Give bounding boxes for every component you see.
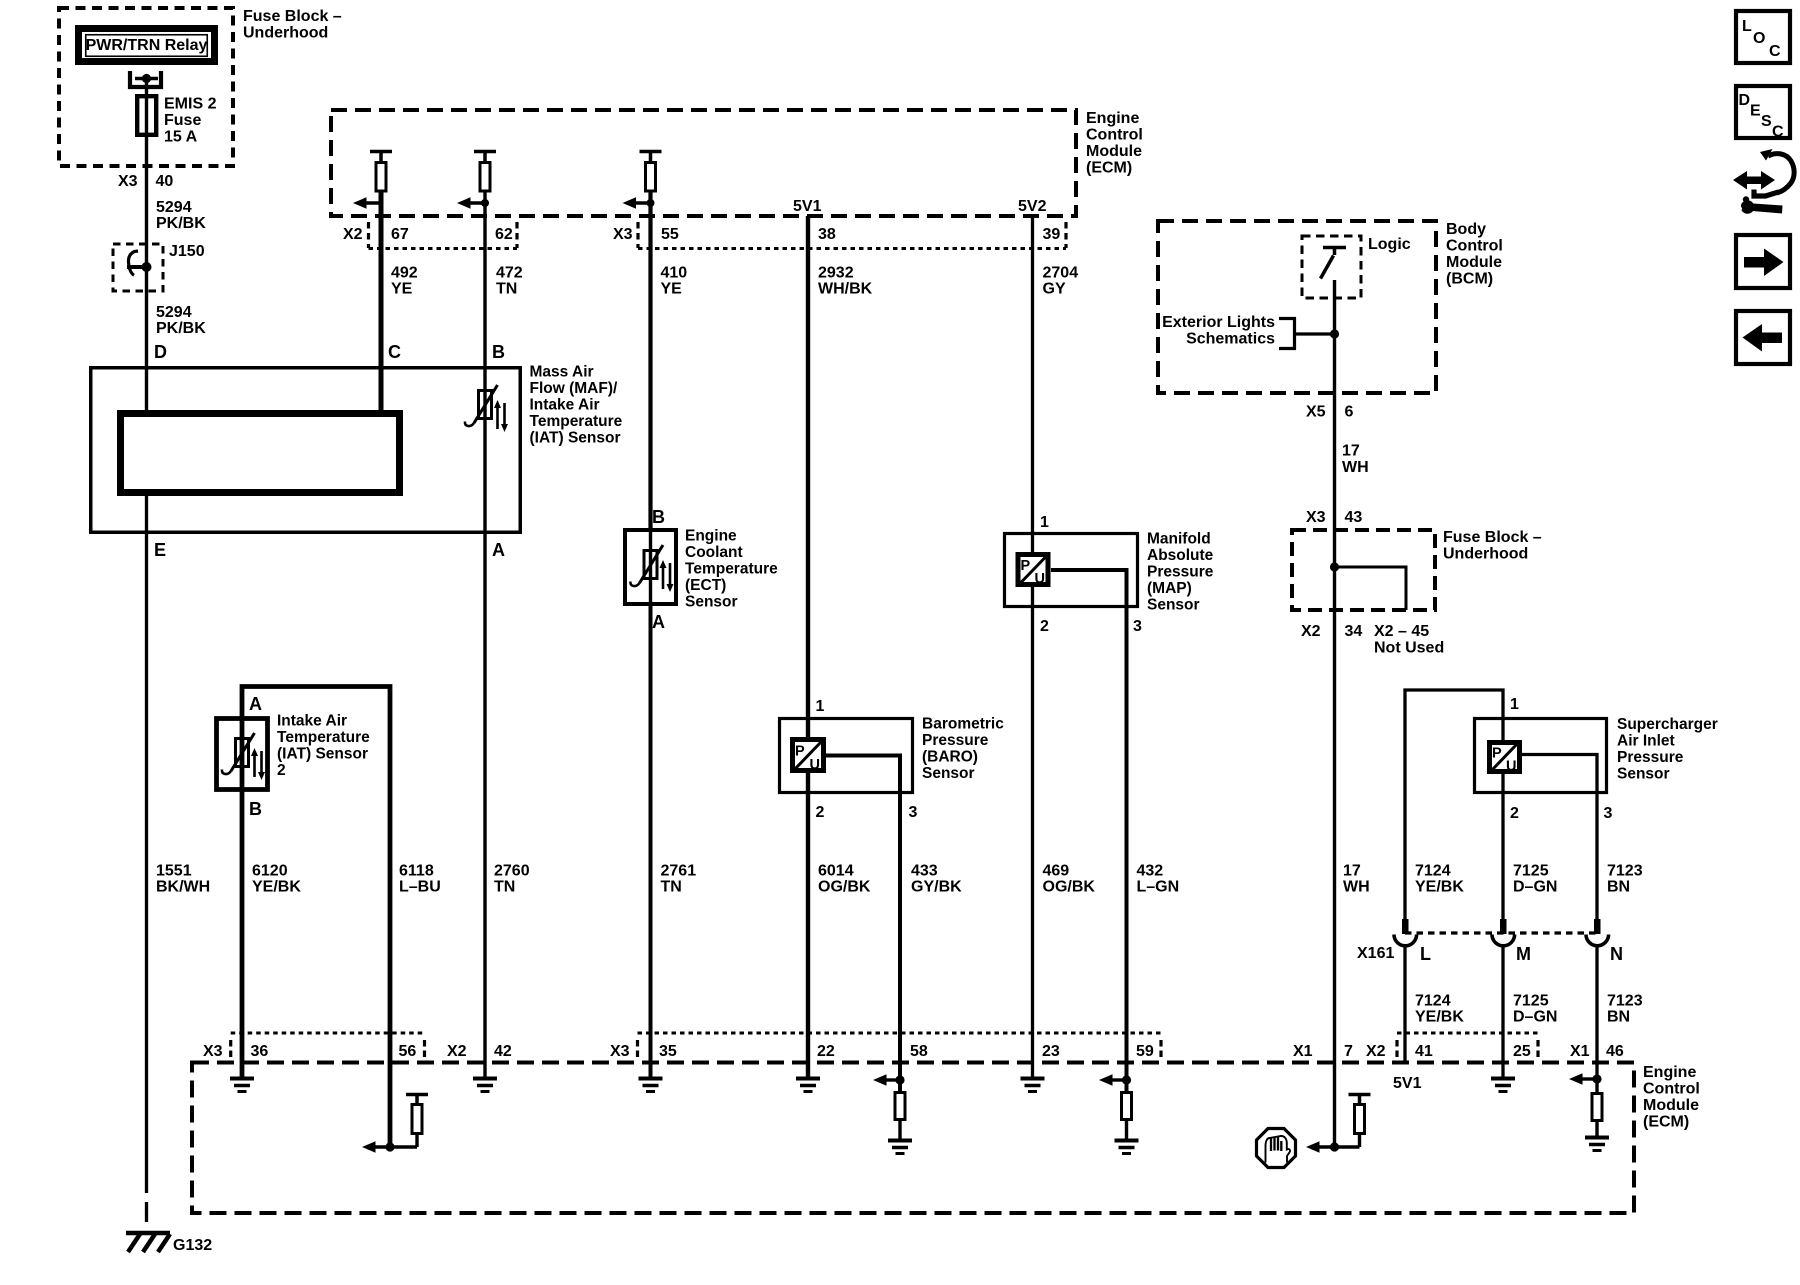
connector X161 pin N <box>1586 919 1609 1079</box>
svg-text:D–GN: D–GN <box>1513 1009 1557 1026</box>
svg-text:EMIS 2: EMIS 2 <box>164 96 217 113</box>
ground at pin 22 <box>806 1063 810 1079</box>
svg-text:L–BU: L–BU <box>399 879 441 896</box>
logic dashed box <box>1302 236 1361 298</box>
svg-text:P: P <box>795 744 805 760</box>
svg-text:7125: 7125 <box>1513 993 1549 1010</box>
svg-text:P: P <box>1021 558 1031 574</box>
svg-text:2761: 2761 <box>661 863 697 880</box>
svg-text:Body: Body <box>1446 221 1486 238</box>
svg-text:1551: 1551 <box>156 863 192 880</box>
svg-text:23: 23 <box>1042 1043 1060 1060</box>
svg-text:(ECT): (ECT) <box>685 577 726 594</box>
svg-text:Module: Module <box>1643 1097 1699 1114</box>
svg-text:Supercharger: Supercharger <box>1617 716 1718 733</box>
svg-text:X1: X1 <box>1570 1043 1590 1060</box>
svg-text:GY: GY <box>1043 281 1066 298</box>
svg-text:BN: BN <box>1607 1009 1630 1026</box>
svg-text:BK/WH: BK/WH <box>156 879 210 896</box>
svg-text:WH: WH <box>1343 879 1370 896</box>
svg-text:X1: X1 <box>1293 1043 1313 1060</box>
svg-text:Pressure: Pressure <box>1617 749 1684 766</box>
SECTION: top ECM box <box>331 110 1143 1063</box>
svg-text:L–GN: L–GN <box>1137 879 1180 896</box>
fuse block underhood box <box>59 8 233 166</box>
svg-text:6120: 6120 <box>252 863 288 880</box>
svg-text:25: 25 <box>1513 1043 1531 1060</box>
svg-text:15 A: 15 A <box>164 129 198 146</box>
SECTION: supercharger <box>1357 690 1718 1079</box>
svg-text:5V2: 5V2 <box>1018 198 1047 215</box>
supercharger air inlet pressure sensor box <box>1475 719 1607 793</box>
svg-text:2932: 2932 <box>818 265 854 282</box>
svg-text:YE/BK: YE/BK <box>252 879 301 896</box>
svg-text:(ECM): (ECM) <box>1086 160 1132 177</box>
svg-text:35: 35 <box>659 1043 677 1060</box>
svg-text:WH: WH <box>1342 459 1369 476</box>
MAF inner element box <box>121 414 400 493</box>
svg-text:(IAT) Sensor: (IAT) Sensor <box>530 430 621 447</box>
svg-text:Engine: Engine <box>1086 110 1139 127</box>
svg-text:22: 22 <box>817 1043 835 1060</box>
connector X161 pin L <box>1394 919 1417 1063</box>
stop hand icon <box>1257 1129 1296 1168</box>
svg-text:62: 62 <box>495 226 513 243</box>
svg-text:WH/BK: WH/BK <box>818 281 873 298</box>
wire 472 TN (pin 62 to MAF B then 2760 TN to pin 42) <box>483 191 486 1063</box>
wire 17 WH (BCM X5-6 down to ECM X1-7) <box>1333 280 1336 1147</box>
svg-text:3: 3 <box>909 804 918 821</box>
connector X2 dotted box <box>369 222 518 248</box>
svg-text:X3: X3 <box>203 1043 223 1060</box>
svg-text:D: D <box>154 342 167 362</box>
svg-text:Schematics: Schematics <box>1186 331 1275 348</box>
svg-text:Absolute: Absolute <box>1147 547 1214 564</box>
svg-text:M: M <box>1516 944 1531 964</box>
svg-text:X3: X3 <box>118 173 138 190</box>
ground at pin 42 <box>483 1063 486 1079</box>
svg-text:1: 1 <box>816 698 825 715</box>
svg-text:TN: TN <box>661 879 682 896</box>
svg-text:6: 6 <box>1345 404 1354 421</box>
pin 56 internal: arrow + pull-up resistor <box>362 1095 428 1153</box>
ECM bottom dashed box <box>192 1063 1634 1214</box>
svg-text:Intake Air: Intake Air <box>530 397 600 414</box>
wire E (1551 BK/WH) <box>145 496 148 1173</box>
svg-text:C: C <box>388 342 401 362</box>
svg-text:Control: Control <box>1086 127 1143 144</box>
svg-text:Control: Control <box>1446 238 1503 255</box>
svg-text:58: 58 <box>910 1043 928 1060</box>
svg-text:YE: YE <box>661 281 683 298</box>
pin 46 internal: arrow + resistor + ground <box>1569 1073 1609 1150</box>
svg-text:7124: 7124 <box>1415 863 1451 880</box>
ECM top dashed box <box>331 110 1076 216</box>
svg-text:U: U <box>1035 571 1045 587</box>
svg-text:36: 36 <box>251 1043 269 1060</box>
ECT sensor box <box>625 530 676 604</box>
svg-text:7: 7 <box>1344 1043 1353 1060</box>
MAP sensor box <box>1005 534 1138 607</box>
svg-text:56: 56 <box>399 1043 417 1060</box>
relay K (PWR/TRN Relay) <box>79 29 215 62</box>
svg-text:E: E <box>154 540 166 560</box>
IAT sensor box <box>217 719 268 790</box>
svg-text:Barometric: Barometric <box>922 716 1004 733</box>
pin 58 internal: arrow + resistor + ground <box>873 1063 912 1154</box>
svg-text:S: S <box>1761 113 1772 130</box>
connector X2 dotted box (41,25) <box>1397 1040 1538 1058</box>
splice J150 <box>113 244 163 291</box>
svg-text:Control: Control <box>1643 1081 1700 1098</box>
ECM driver pin 67 <box>353 152 392 209</box>
connector X3 dotted box (36,56) <box>231 1040 425 1058</box>
junction <box>142 74 151 83</box>
svg-text:GY/BK: GY/BK <box>911 879 962 896</box>
svg-text:N: N <box>1610 944 1623 964</box>
P/U transducer symbol <box>793 740 824 771</box>
ground G132 <box>126 1231 170 1236</box>
svg-text:L: L <box>1420 944 1431 964</box>
BCM dashed box <box>1158 221 1436 393</box>
svg-text:Temperature: Temperature <box>685 561 778 578</box>
svg-text:59: 59 <box>1136 1043 1154 1060</box>
thermistor (IAT element inside MAF box) <box>479 391 492 419</box>
wire 7125 D-GN (pin 2 to X161 M) <box>1501 772 1504 919</box>
svg-text:(BCM): (BCM) <box>1446 271 1493 288</box>
svg-text:Sensor: Sensor <box>1617 766 1670 783</box>
svg-text:Sensor: Sensor <box>1147 597 1200 614</box>
svg-text:U: U <box>810 757 820 773</box>
svg-text:Module: Module <box>1446 254 1502 271</box>
fuse block underhood box 2 <box>1292 530 1435 610</box>
svg-text:C: C <box>1769 43 1781 60</box>
pin 59 internal: arrow + resistor + ground <box>1099 1063 1139 1154</box>
svg-text:G132: G132 <box>173 1237 212 1254</box>
svg-text:433: 433 <box>911 863 938 880</box>
wire <box>145 79 148 97</box>
svg-text:Temperature: Temperature <box>277 729 370 746</box>
svg-text:(IAT) Sensor: (IAT) Sensor <box>277 746 368 763</box>
svg-text:E: E <box>1750 103 1761 120</box>
svg-text:C: C <box>1772 124 1784 141</box>
svg-text:X5: X5 <box>1306 404 1326 421</box>
svg-text:PK/BK: PK/BK <box>156 320 206 337</box>
svg-text:OG/BK: OG/BK <box>1043 879 1096 896</box>
svg-text:1: 1 <box>1510 696 1519 713</box>
svg-text:7124: 7124 <box>1415 993 1451 1010</box>
ground at pin 25 <box>1501 1063 1504 1079</box>
svg-text:B: B <box>492 342 505 362</box>
svg-text:Flow (MAF)/: Flow (MAF)/ <box>530 380 619 397</box>
svg-text:17: 17 <box>1342 443 1360 460</box>
svg-text:7123: 7123 <box>1607 863 1643 880</box>
pin1 wire inside box <box>806 717 810 740</box>
svg-text:Sensor: Sensor <box>922 765 975 782</box>
svg-text:B: B <box>652 507 665 527</box>
svg-text:(MAP): (MAP) <box>1147 580 1192 597</box>
svg-text:(BARO): (BARO) <box>922 749 978 766</box>
svg-text:X2: X2 <box>447 1043 467 1060</box>
svg-text:43: 43 <box>1345 509 1363 526</box>
svg-text:Fuse Block –: Fuse Block – <box>243 8 342 25</box>
wire 6120 YE/BK (IAT B to ECM 36) <box>240 792 245 1063</box>
pin1 wire inside box <box>1031 532 1034 556</box>
wire 7124 YE/BK (pin 1 loop over to X161 L) <box>1405 690 1503 919</box>
svg-text:Exterior Lights: Exterior Lights <box>1162 314 1275 331</box>
svg-text:Manifold: Manifold <box>1147 531 1211 548</box>
wire from fuse to MAF pin D <box>145 96 148 410</box>
wire 2704 GY (pin 39 5V2 to MAP 1) <box>1031 216 1034 532</box>
svg-text:3: 3 <box>1133 618 1142 635</box>
svg-text:6014: 6014 <box>818 863 854 880</box>
svg-text:39: 39 <box>1043 226 1061 243</box>
svg-text:O: O <box>1753 30 1765 47</box>
svg-text:Underhood: Underhood <box>243 25 328 42</box>
P/U transducer symbol <box>1018 555 1048 585</box>
svg-text:TN: TN <box>494 879 515 896</box>
ECM driver pin 62 <box>457 152 496 209</box>
svg-text:Pressure: Pressure <box>922 732 989 749</box>
svg-text:2: 2 <box>1040 618 1049 635</box>
splice jog inside fuse block <box>1330 562 1339 571</box>
connector X161 pin M <box>1492 919 1515 1063</box>
svg-text:410: 410 <box>661 265 688 282</box>
svg-text:X2 – 45: X2 – 45 <box>1374 623 1429 640</box>
svg-text:38: 38 <box>818 226 836 243</box>
ground at pin 35 <box>649 1063 653 1079</box>
svg-text:Sensor: Sensor <box>685 594 738 611</box>
svg-text:X3: X3 <box>610 1043 630 1060</box>
svg-text:(ECM): (ECM) <box>1643 1114 1689 1131</box>
back arrow box <box>1736 311 1790 364</box>
MAF/IAT sensor outer box <box>91 368 521 533</box>
svg-text:YE/BK: YE/BK <box>1415 1009 1464 1026</box>
svg-text:X2: X2 <box>343 226 363 243</box>
svg-text:YE/BK: YE/BK <box>1415 879 1464 896</box>
svg-text:P: P <box>1492 746 1502 762</box>
svg-text:469: 469 <box>1043 863 1070 880</box>
service info icon (double arrow + wrench) <box>1733 149 1794 214</box>
svg-text:2: 2 <box>277 762 286 779</box>
svg-text:U: U <box>1506 759 1516 775</box>
svg-text:432: 432 <box>1137 863 1164 880</box>
svg-text:41: 41 <box>1415 1043 1433 1060</box>
SECTION: wire labels <box>156 265 1643 1026</box>
logic switch symbol <box>1323 248 1346 256</box>
svg-text:Coolant: Coolant <box>685 544 743 561</box>
svg-text:34: 34 <box>1345 623 1363 640</box>
svg-text:Temperature: Temperature <box>530 413 623 430</box>
SECTION: MAP sensor <box>1005 514 1214 1063</box>
svg-text:TN: TN <box>496 281 517 298</box>
wire 6118 L-BU loop (IAT A up over to ECM 56) <box>242 687 390 1148</box>
svg-text:2760: 2760 <box>494 863 530 880</box>
output wire to pin 3 <box>826 756 900 1063</box>
svg-text:40: 40 <box>156 173 174 190</box>
pin 7 internal: arrow + pull-up resistor <box>1306 1095 1371 1153</box>
thermistor element <box>649 528 652 606</box>
svg-text:X161: X161 <box>1357 945 1394 962</box>
svg-text:492: 492 <box>391 265 418 282</box>
svg-text:Air Inlet: Air Inlet <box>1617 733 1675 750</box>
svg-text:PK/BK: PK/BK <box>156 215 206 232</box>
BARO sensor box <box>780 719 913 793</box>
svg-text:2: 2 <box>816 804 825 821</box>
SECTION: top-left fuse block <box>59 8 342 410</box>
fuse F EMIS 2 15 A <box>137 96 156 135</box>
svg-text:46: 46 <box>1606 1043 1624 1060</box>
wire 410 YE (pin 55 to ECT B) <box>648 191 652 528</box>
svg-text:Fuse: Fuse <box>164 112 201 129</box>
svg-text:YE: YE <box>391 281 413 298</box>
svg-text:OG/BK: OG/BK <box>818 879 871 896</box>
svg-text:A: A <box>492 540 505 560</box>
connector X161 dashed link <box>1405 931 1597 934</box>
wire 6014 OG/BK (BARO 2 to ECM 22) <box>806 771 810 1063</box>
LOC nav box <box>1736 11 1790 63</box>
svg-text:5294: 5294 <box>156 199 192 216</box>
svg-text:5V1: 5V1 <box>793 198 822 215</box>
svg-text:55: 55 <box>661 226 679 243</box>
svg-text:Not Used: Not Used <box>1374 640 1444 657</box>
SECTION: right side icons <box>1733 11 1794 364</box>
svg-text:A: A <box>249 694 262 714</box>
ground at pin 23 <box>1031 1063 1034 1079</box>
svg-text:D–GN: D–GN <box>1513 879 1557 896</box>
connector X3 dotted box <box>638 222 1066 248</box>
svg-text:BN: BN <box>1607 879 1630 896</box>
output wire to pin 3 <box>1051 570 1127 1063</box>
svg-text:2704: 2704 <box>1043 265 1079 282</box>
svg-text:B: B <box>249 799 262 819</box>
svg-text:42: 42 <box>494 1043 512 1060</box>
svg-text:Mass Air: Mass Air <box>530 364 594 381</box>
SECTION: bottom ECM <box>192 1033 1700 1213</box>
svg-text:6118: 6118 <box>399 863 434 880</box>
connector X3 dotted box (35,22,58,23,59) <box>638 1040 1162 1058</box>
svg-text:Pressure: Pressure <box>1147 564 1214 581</box>
svg-text:3: 3 <box>1604 805 1613 822</box>
SECTION: MAF sensor <box>91 342 623 1254</box>
svg-text:Fuse Block –: Fuse Block – <box>1443 529 1542 546</box>
ground at pin 36 <box>240 1063 245 1079</box>
svg-text:5V1: 5V1 <box>1393 1075 1422 1092</box>
svg-text:5294: 5294 <box>156 304 192 321</box>
svg-text:Intake Air: Intake Air <box>277 713 347 730</box>
SECTION: BCM <box>1158 221 1542 1147</box>
svg-text:X2: X2 <box>1366 1043 1386 1060</box>
wire 2761 TN (ECT A to ECM 35) <box>649 606 653 1063</box>
svg-text:X2: X2 <box>1301 623 1321 640</box>
SECTION: BARO sensor <box>780 698 1005 1063</box>
DESC nav box <box>1736 86 1790 141</box>
SECTION: IAT sensor <box>217 687 391 1148</box>
svg-text:Underhood: Underhood <box>1443 546 1528 563</box>
next arrow box <box>1736 235 1790 288</box>
svg-text:Module: Module <box>1086 143 1142 160</box>
svg-text:472: 472 <box>496 265 523 282</box>
ECM driver pin 55 <box>623 152 662 209</box>
svg-text:7125: 7125 <box>1513 863 1549 880</box>
svg-text:PWR/TRN Relay: PWR/TRN Relay <box>86 37 208 54</box>
thermistor element <box>240 716 245 792</box>
wire 492 YE (pin 67 to MAF C) <box>379 191 384 410</box>
svg-text:Engine: Engine <box>1643 1064 1696 1081</box>
wire 469 OG/BK (MAP 2 to ECM 23) <box>1031 585 1034 1063</box>
SECTION: ECT sensor <box>625 507 778 1063</box>
svg-text:Engine: Engine <box>685 528 737 545</box>
svg-text:D: D <box>1739 92 1751 109</box>
svg-text:67: 67 <box>391 226 409 243</box>
output wire to pin 3 (7123 BN) <box>1522 755 1597 920</box>
svg-text:J150: J150 <box>169 243 205 260</box>
svg-text:7123: 7123 <box>1607 993 1643 1010</box>
svg-text:X3: X3 <box>1306 509 1326 526</box>
svg-text:2: 2 <box>1510 805 1519 822</box>
svg-text:1: 1 <box>1040 514 1049 531</box>
svg-text:L: L <box>1742 18 1752 35</box>
wire 2932 WH/BK (pin 38 5V1 to BARO 1) <box>806 216 810 717</box>
svg-text:X3: X3 <box>613 226 633 243</box>
svg-text:A: A <box>652 612 665 632</box>
relay contact cup <box>130 71 161 87</box>
svg-text:17: 17 <box>1343 863 1361 880</box>
P/U transducer symbol <box>1490 743 1520 772</box>
svg-text:Logic: Logic <box>1368 236 1411 253</box>
